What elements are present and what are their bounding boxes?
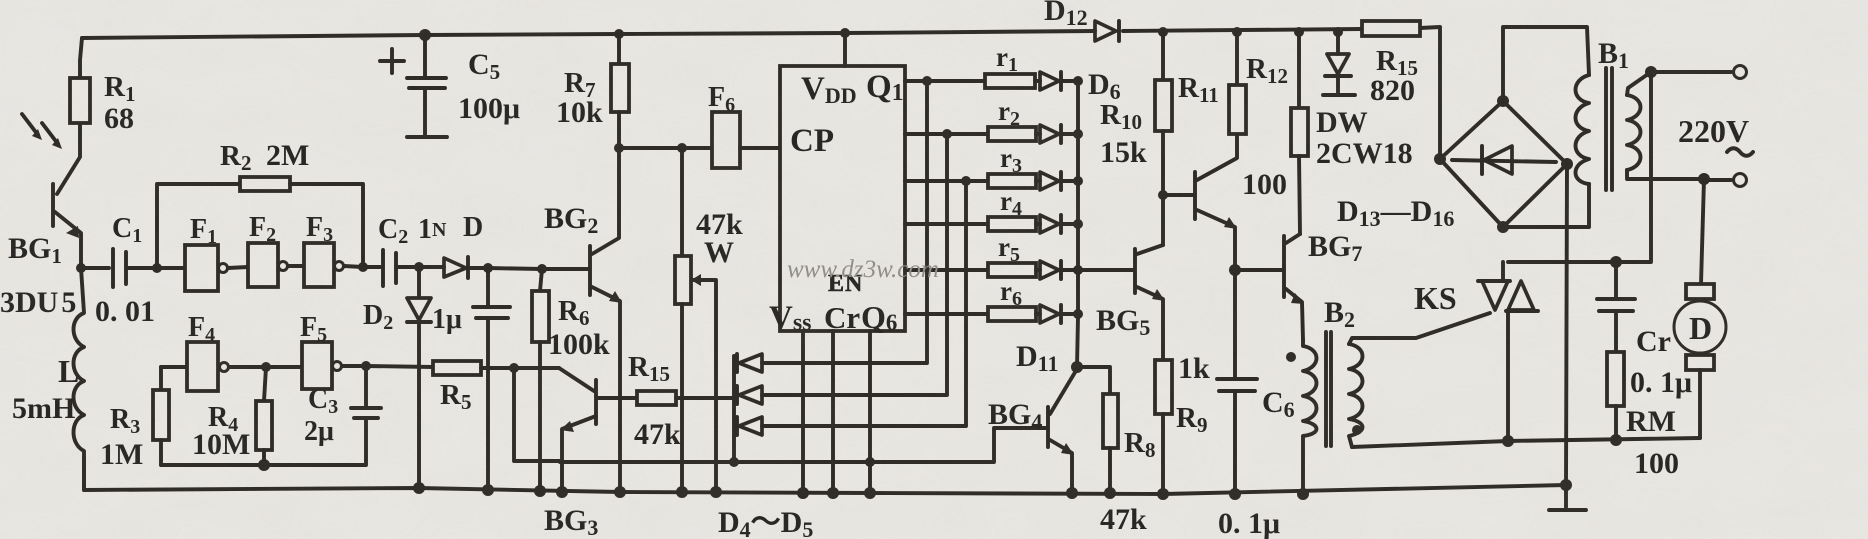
gate F6 (619, 146, 712, 150)
terminal 220V bottom (1698, 173, 1710, 185)
node I: BG3 base feedback (509, 363, 519, 373)
diode stack D4~D5 (732, 356, 736, 462)
wire bridge AC top to B1 primary (1503, 27, 1589, 101)
wire snubber bottom line (1352, 438, 1700, 447)
resistor RM (1607, 352, 1624, 406)
resistor r5 row (905, 268, 988, 272)
node H: F4 out / R4 top (229, 365, 302, 369)
paper noise (0, 0, 1, 1)
transformer B1 core (1604, 68, 1608, 190)
light arrows (22, 114, 38, 135)
triac KS (1501, 262, 1505, 281)
transformer B2 core (1324, 332, 1328, 446)
capacitor C2 (381, 250, 385, 286)
inductor L 5mH (74, 268, 85, 490)
node C: F3 out / R2 / C2 (358, 262, 368, 272)
bottom rail junction dots (413, 482, 425, 494)
capacitor 1u (486, 268, 490, 305)
resistor R1 (70, 78, 90, 123)
node E: D out / 1u cap (483, 263, 493, 273)
wire 220V bottom to motor (1701, 179, 1704, 284)
IC bottom pin columns (801, 331, 805, 493)
node F: R6 top (537, 264, 547, 274)
node A: BG1 emitter / C1 (76, 263, 86, 273)
IC U1 counter (780, 66, 905, 331)
gate F1 (157, 266, 185, 270)
resistor R8 (1077, 367, 1110, 394)
bridge rectifier D13-D16 (1440, 101, 1567, 227)
node G: R7 / BG2 collector / F6 (614, 143, 624, 153)
node B: C1 / F1 / R2 (152, 263, 162, 273)
resistor R10 (1158, 27, 1168, 37)
wire to BG2 base (488, 268, 588, 269)
wire bottom ground rail (84, 458, 1566, 494)
resistor r2 row (905, 132, 988, 136)
diode D12 (1095, 21, 1116, 41)
node D2top (414, 262, 424, 272)
gate F2 (228, 267, 248, 268)
capacitor C1 (81, 266, 109, 270)
potentiometer 47k W (680, 148, 684, 256)
resistor r6 row (905, 312, 988, 316)
wire rows A B C to columns (766, 81, 927, 363)
resistor r4 row (905, 222, 988, 226)
wire row D feedback (560, 428, 1046, 462)
diode D2 (417, 267, 421, 297)
resistor R15 820 (1362, 21, 1420, 36)
resistor R15 47k (598, 396, 637, 400)
transistor BG6 (1163, 193, 1193, 197)
wire triac gate to B2 secondary (1349, 313, 1490, 344)
resistor R9 (1155, 360, 1172, 414)
resistor R5 (433, 361, 481, 375)
row F5 output to BG3 base (342, 366, 433, 367)
wire diode bus (1077, 81, 1078, 367)
capacitor C5 (419, 29, 431, 41)
gate F4 (161, 365, 187, 369)
transformer B2 secondary (1349, 344, 1363, 447)
motor D (1686, 284, 1714, 299)
ground (1564, 485, 1568, 507)
diode D (419, 265, 444, 269)
resistor R11 (1232, 27, 1242, 37)
transistor BG7 (1235, 268, 1282, 272)
resistor R6 (540, 269, 542, 291)
wire top supply rail (82, 31, 1095, 38)
transformer B1 secondary (1627, 95, 1641, 170)
transistor BG5 (1078, 268, 1133, 272)
terminal 220V top (1645, 66, 1657, 78)
transistor BG4 (1046, 407, 1050, 447)
zener DW 2CW18 (1333, 27, 1343, 37)
transistor BG3 (559, 368, 594, 391)
gate F5 (302, 342, 332, 389)
capacitor C6 (1233, 270, 1237, 377)
resistor r3 row (905, 179, 988, 183)
capacitor Cr (1614, 262, 1618, 297)
resistor R12 (1294, 27, 1304, 37)
transformer B2 primary (1303, 340, 1317, 494)
wire 220V top down to triac (1508, 72, 1651, 262)
phototransistor BG1 (80, 38, 82, 78)
node J: BG7 base / C6 (1229, 264, 1241, 276)
capacitor C3 (361, 361, 371, 371)
gate F3 (288, 264, 304, 268)
wire bridge minus to ground (1566, 164, 1567, 485)
resistor R2 feedback (157, 184, 240, 268)
transformer B1 primary (1576, 75, 1590, 184)
resistor R4 (264, 367, 266, 401)
resistor R7 (614, 29, 624, 39)
resistor R3 (153, 390, 169, 440)
wire bridge AC bottom to B1 primary (1503, 184, 1589, 227)
transistor BG2 (588, 246, 592, 295)
resistor r1 row (905, 79, 985, 83)
